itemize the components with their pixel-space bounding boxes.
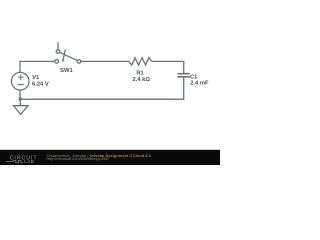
wire V1 bottom to ground node — [19, 90, 21, 99]
wire R1 to C1 corner — [152, 61, 184, 73]
resistor R1 — [129, 58, 152, 65]
ground — [13, 99, 28, 114]
wire top rail: V1 to SW1 left — [20, 61, 55, 72]
svg-text:6.24 V: 6.24 V — [32, 81, 49, 87]
switch SW1 — [55, 42, 81, 63]
capacitor C1 — [178, 74, 190, 77]
svg-text:V1: V1 — [32, 75, 40, 81]
footer bar — [0, 150, 220, 165]
svg-text:http://circuitlab.com/c/62M6mp: http://circuitlab.com/c/62M6mpp33uF — [47, 157, 111, 161]
svg-text:2.4 mF: 2.4 mF — [190, 81, 209, 87]
svg-text:LAB: LAB — [24, 159, 34, 164]
voltage source V1 — [11, 72, 29, 90]
wire SW1 right to R1 — [81, 60, 129, 62]
footer logo squarewave — [6, 160, 23, 163]
node: V1- / ground junction — [19, 97, 22, 100]
svg-text:R1: R1 — [136, 70, 144, 76]
wire bottom rail — [20, 77, 184, 99]
svg-text:SW1: SW1 — [60, 68, 73, 74]
svg-text:2.4 kΩ: 2.4 kΩ — [133, 77, 151, 83]
